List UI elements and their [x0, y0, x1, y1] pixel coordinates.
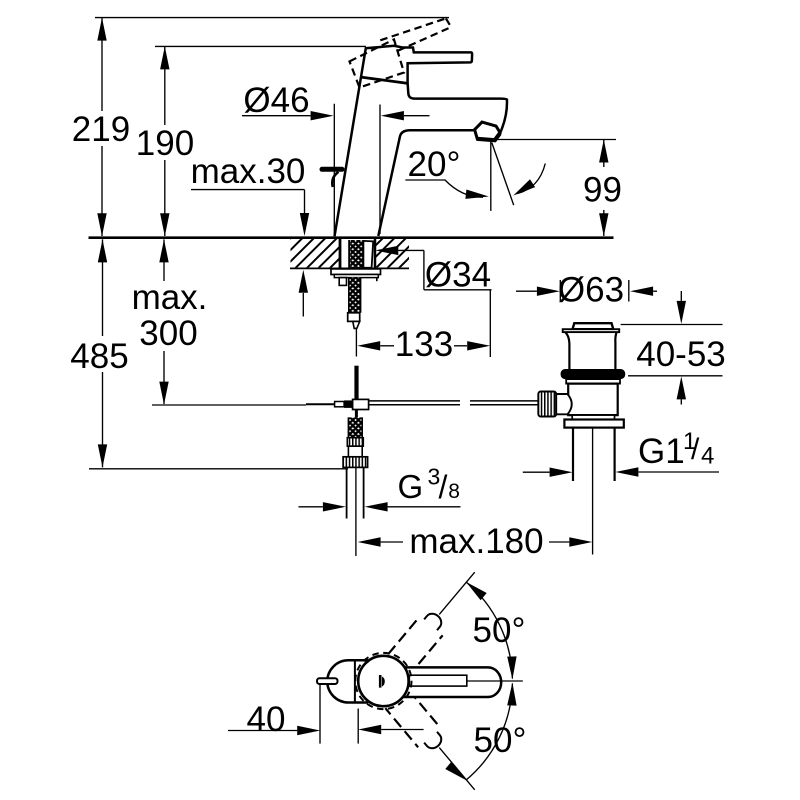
extension line top (raised handle height)	[95, 17, 449, 19]
extension line lever height	[155, 45, 366, 47]
rod joint block white piece	[353, 399, 369, 409]
braided hose below nut	[349, 278, 361, 313]
extension line hose bottom	[89, 468, 348, 470]
topview handle dome	[358, 656, 408, 706]
drain body upper band	[566, 379, 620, 384]
topview dashed lever upper	[387, 563, 487, 674]
20deg right arc arrow	[518, 164, 546, 194]
horizontal lever rod left stub	[306, 403, 335, 405]
svg-text:300: 300	[139, 314, 197, 353]
deck bottom surface line	[290, 267, 409, 269]
shank braided hose in deck hole	[348, 240, 350, 268]
svg-text:Ø34: Ø34	[425, 256, 491, 295]
topview body capsule	[327, 660, 368, 702]
body joint line	[354, 661, 356, 702]
extension line spout axis lower	[489, 290, 491, 357]
max.30 lower arrow	[302, 293, 304, 317]
rod lower stub	[355, 410, 358, 418]
dim O46 right arrow	[404, 115, 430, 117]
topview spout stub	[317, 678, 338, 684]
extension line rod level	[152, 404, 306, 406]
G3/8 nut	[343, 457, 368, 468]
block bottom edge	[362, 77, 408, 83]
pop-up pull rod	[354, 366, 358, 400]
20deg left leader arc	[405, 180, 483, 197]
20deg vertical reference	[490, 142, 492, 211]
20deg tilted stream line	[492, 143, 514, 206]
lower braided hose	[348, 417, 362, 437]
dim 99 vertical line	[603, 140, 605, 237]
rod joint block small left piece	[335, 402, 345, 407]
drain cap plate	[563, 329, 620, 332]
svg-text:40: 40	[247, 700, 286, 739]
pop-up rod knob behind body	[322, 167, 342, 172]
deck hole left wall	[339, 239, 342, 269]
dim max300 vertical line	[163, 239, 165, 404]
svg-text:Ø63: Ø63	[558, 271, 624, 310]
supply tubes	[347, 467, 364, 518]
svg-text:G1: G1	[638, 432, 685, 471]
max.30 leader line	[191, 190, 305, 214]
faucet body right side	[378, 99, 507, 236]
O34 arrow at deck	[375, 246, 398, 255]
drain cap knob	[573, 323, 614, 329]
mounting nut	[334, 275, 378, 278]
deck hatch left block	[291, 239, 340, 267]
drain knurled adjuster knob	[538, 392, 556, 417]
svg-text:8: 8	[448, 480, 460, 503]
lever inner detail	[409, 675, 467, 686]
lever axis extension	[467, 680, 523, 682]
knob connector	[556, 394, 572, 414]
drain body	[568, 384, 618, 416]
svg-text:99: 99	[583, 171, 622, 210]
topview solid lever	[401, 667, 502, 697]
svg-text:219: 219	[72, 110, 130, 149]
spout top right corner	[501, 97, 507, 100]
rod joint block black piece	[344, 400, 353, 408]
horizontal lever rod	[369, 401, 460, 405]
50deg lower arc	[466, 684, 512, 781]
svg-text:max.: max.	[132, 278, 208, 317]
spacer wedge in hole	[363, 241, 373, 268]
svg-text:max.30: max.30	[191, 152, 306, 191]
svg-text:4: 4	[701, 443, 714, 470]
dashed raised handle hub	[350, 39, 405, 87]
drain tailpipe	[573, 428, 615, 481]
svg-text:50°: 50°	[474, 721, 527, 760]
50deg upper arc	[466, 582, 512, 679]
faucet body outline	[335, 46, 501, 237]
svg-text:133: 133	[395, 325, 453, 364]
dim 219 vertical line	[101, 18, 103, 236]
svg-text:485: 485	[70, 337, 128, 376]
hose end tip	[353, 321, 360, 328]
topview dashed circle	[355, 653, 411, 709]
svg-text:G: G	[398, 468, 424, 505]
deck hatch right block	[376, 239, 409, 267]
svg-text:20°: 20°	[408, 145, 461, 184]
hose knurled fitting	[347, 438, 363, 447]
aerator tip	[475, 122, 501, 140]
lever break cap	[424, 732, 444, 752]
center keyhole mark	[379, 675, 382, 688]
drain body lower band	[572, 415, 614, 419]
lever axis thin extension	[439, 748, 474, 790]
extension line spout outlet height	[493, 139, 616, 141]
O46 extension lines	[333, 104, 335, 234]
lever break cap	[424, 611, 444, 631]
drain flange neck	[565, 332, 616, 369]
svg-text:50°: 50°	[473, 611, 526, 650]
deck top surface line	[89, 236, 614, 239]
drain locknut	[564, 420, 623, 428]
hose end fitting	[348, 313, 360, 322]
svg-text:max.180: max.180	[409, 522, 543, 561]
svg-text:190: 190	[136, 124, 194, 163]
dim 485 vertical line	[102, 239, 104, 467]
lever axis thin extension	[439, 572, 474, 614]
topview dashed lever lower	[385, 689, 485, 800]
dim 190 vertical line	[164, 46, 166, 236]
svg-text:Ø46: Ø46	[243, 81, 309, 120]
dim O46 left arrow/underline	[242, 115, 311, 117]
deck hole right wall	[374, 239, 377, 269]
mounting washer plate	[331, 269, 381, 275]
drain rubber seal (black)	[561, 369, 626, 379]
drain centerline	[592, 407, 594, 555]
dashed raised lever	[380, 18, 446, 40]
svg-text:40-53: 40-53	[636, 335, 726, 374]
faucet centerline	[355, 329, 357, 357]
svg-text:/: /	[691, 433, 700, 466]
svg-text:/: /	[439, 469, 448, 505]
